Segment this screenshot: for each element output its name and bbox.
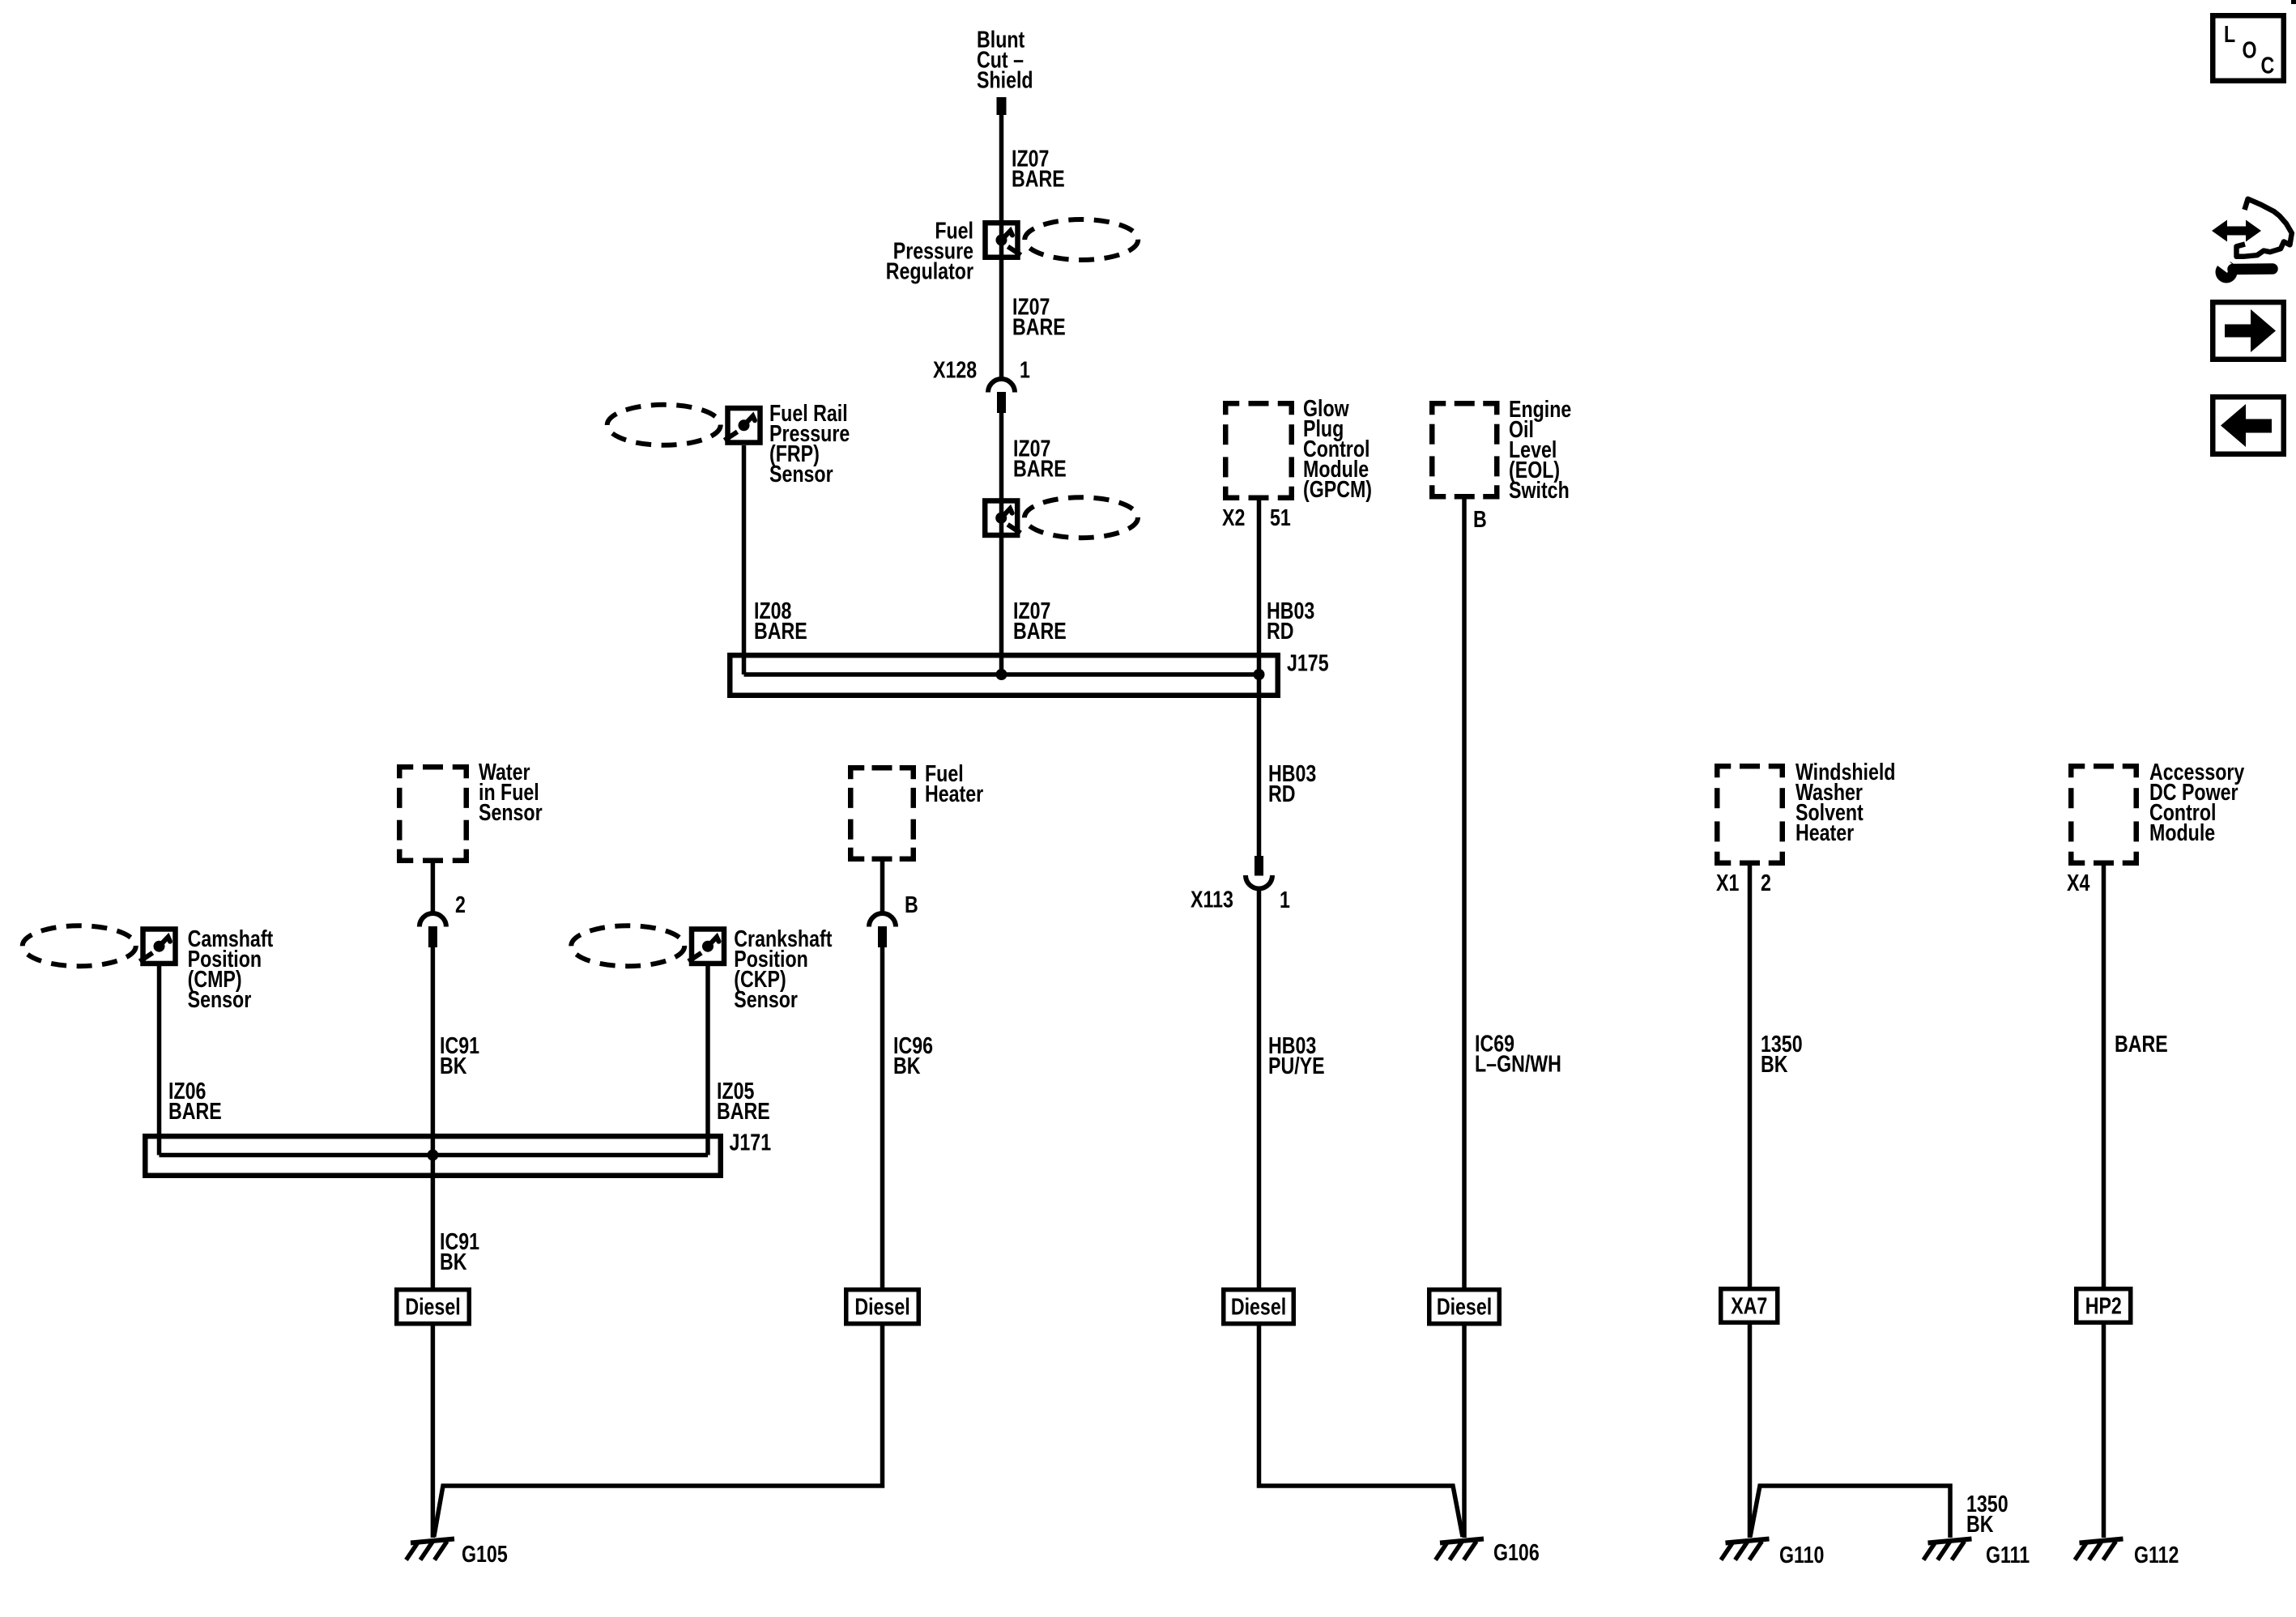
LOC legend box: [2213, 15, 2284, 81]
splice pack J171 outer: [145, 1136, 721, 1176]
svg-text:G106: G106: [1493, 1538, 1540, 1565]
ground G111: [1928, 1539, 1972, 1543]
svg-text:X128: X128: [933, 356, 977, 383]
svg-text:G112: G112: [2134, 1541, 2179, 1568]
svg-text:X4: X4: [2067, 869, 2090, 896]
blunt cut terminal: [997, 97, 1007, 115]
back arrow box: [2213, 397, 2284, 454]
shield symbol CMP sensor: [143, 929, 176, 964]
svg-text:Diesel: Diesel: [1437, 1293, 1492, 1320]
svg-text:G110: G110: [1779, 1541, 1824, 1568]
wire HP2 to G112: [2102, 1325, 2106, 1538]
splice pack J175 bus bar: [744, 672, 1259, 677]
svg-text:HP2: HP2: [2085, 1292, 2122, 1319]
wire HB03 RD GPCM to X113: [1257, 498, 1262, 856]
connector Diesel (EOL branch): [1429, 1290, 1500, 1324]
wire IZ07 X128 to shield: [999, 411, 1004, 674]
page corner mark: [2291, 0, 2296, 4]
ground G105: [411, 1539, 454, 1543]
shield symbol FRP sensor: [728, 408, 760, 443]
svg-text:X2: X2: [1222, 504, 1245, 530]
wire IC96 BK pinB to Diesel: [880, 947, 885, 1288]
wire XA7 to G110: [1748, 1325, 1753, 1538]
wire 1350 BK WWSH to XA7: [1748, 864, 1753, 1287]
ground G110: [1726, 1539, 1770, 1543]
svg-text:J171: J171: [730, 1129, 772, 1155]
wire Diesel to G106 (bent): [1259, 1326, 1463, 1538]
junction dot on J175 (HB03): [1254, 669, 1265, 680]
wire IZ08 FRP to J175: [742, 445, 747, 674]
splice pack J171 bus bar: [160, 1153, 709, 1158]
svg-text:1: 1: [1280, 886, 1290, 913]
svg-text:2: 2: [1761, 869, 1771, 896]
svg-text:Diesel: Diesel: [405, 1293, 460, 1320]
wire IZ07 blunt-cut to X128: [999, 115, 1004, 377]
shield symbol U2 (in-line shield): [985, 500, 1017, 535]
shield symbol U1 Fuel Pressure Regulator: [986, 223, 1018, 257]
svg-text:L: L: [2224, 20, 2235, 47]
ground G112: [2080, 1539, 2123, 1543]
svg-text:XA7: XA7: [1731, 1292, 1767, 1319]
wire IZ06 CMP to J171: [157, 964, 162, 1155]
connector X113 pin 1: [1254, 856, 1263, 876]
wire Diesel to G106: [1462, 1326, 1467, 1538]
wire heater to pin B: [880, 859, 885, 913]
ground G106: [1440, 1539, 1484, 1543]
wire HB03 PU/YE X113 to Diesel: [1257, 889, 1262, 1289]
wire IZ05 CKP to J171: [705, 964, 710, 1155]
heater Fuel Heater (dashed): [850, 768, 864, 779]
wire sensor to pin 2: [431, 861, 436, 913]
wire IC69 EOL to Diesel: [1462, 498, 1467, 1288]
service icon (arrows / connector / wrench): [2212, 220, 2261, 242]
wire Diesel to G105 (bent): [434, 1326, 883, 1538]
svg-text:G105: G105: [462, 1540, 508, 1567]
connector pin B: [869, 913, 896, 927]
module Accessory DC Power Control (dashed): [2071, 766, 2085, 777]
wire BARE ADCPM to HP2: [2102, 864, 2106, 1287]
connector HP2: [2077, 1289, 2131, 1323]
junction dot on J171: [427, 1150, 438, 1161]
connector X128 pin 1: [988, 379, 1015, 392]
connector Diesel (CMP branch): [397, 1290, 470, 1324]
connector Diesel (heater branch): [846, 1290, 919, 1324]
splice pack J175 outer: [730, 655, 1278, 696]
svg-text:J175: J175: [1287, 649, 1329, 676]
svg-text:BARE: BARE: [2115, 1030, 2168, 1057]
svg-text:B: B: [1473, 505, 1487, 532]
wire Diesel to G105: [431, 1326, 436, 1538]
svg-text:G111: G111: [1986, 1541, 2030, 1568]
svg-text:HB03PU/YE: HB03PU/YE: [1268, 1032, 1325, 1079]
svg-text:X113: X113: [1191, 886, 1233, 913]
module GPCM (dashed): [1225, 403, 1239, 415]
back arrow: [2221, 404, 2272, 447]
svg-text:O: O: [2243, 36, 2257, 63]
svg-text:B: B: [905, 891, 918, 917]
wire branch to G111: [1750, 1486, 1950, 1538]
junction dot on J175 (IZ07): [996, 669, 1007, 680]
switch EOL (dashed): [1432, 403, 1446, 415]
svg-text:51: 51: [1270, 504, 1291, 530]
svg-text:Diesel: Diesel: [1231, 1293, 1286, 1320]
forward arrow box: [2213, 302, 2284, 360]
connector Diesel (X113 branch): [1224, 1290, 1294, 1324]
shield symbol CKP sensor: [692, 929, 724, 964]
wire IC91 BK J171 to Diesel: [431, 1155, 436, 1289]
svg-text:X1: X1: [1716, 869, 1739, 896]
svg-text:Diesel: Diesel: [854, 1293, 909, 1320]
heater Windshield Washer Solvent (dashed): [1717, 766, 1731, 777]
svg-text:C: C: [2261, 52, 2275, 79]
connector XA7: [1721, 1289, 1778, 1323]
connector pin 2: [420, 913, 446, 927]
sensor Water in Fuel (dashed): [399, 767, 413, 778]
svg-text:1: 1: [1020, 356, 1030, 383]
wire IC91 BK pin2 to J171: [431, 947, 436, 1155]
svg-text:2: 2: [455, 891, 466, 917]
forward arrow: [2225, 309, 2276, 352]
